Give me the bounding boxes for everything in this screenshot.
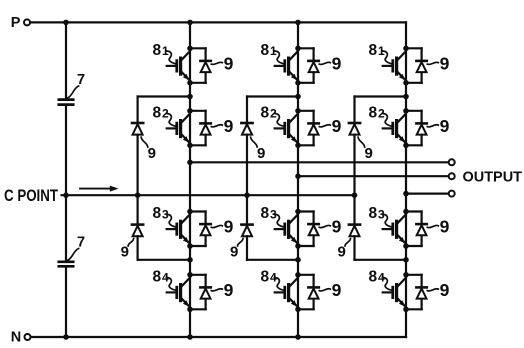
capacitor 7 upper	[59, 100, 73, 105]
wire clamp branch 3 lower segment	[353, 236, 355, 260]
label 9 freewheel (82 leg 3)	[427, 116, 449, 136]
label 82 (leg 1)	[153, 104, 176, 126]
junction leg 3 output	[403, 191, 409, 197]
wire clamp branch 1 upper segment	[137, 97, 139, 124]
svg-text:9: 9	[332, 116, 342, 136]
label N	[11, 330, 21, 346]
junction P rail / capacitor chain	[63, 20, 69, 26]
junction leg 1 output	[187, 160, 193, 166]
label 9 lower clamp (leg 1)	[121, 239, 134, 261]
junction C bus / capacitor chain	[63, 192, 69, 198]
wire clamp branch 2 upper segment	[246, 97, 248, 124]
label 9 lower clamp (leg 2)	[230, 239, 243, 261]
output terminal 2	[449, 173, 455, 179]
junction leg 2 / clamp bottom	[295, 257, 301, 263]
IGBT 83 (leg 3)	[383, 215, 406, 243]
IGBT 81 (leg 1)	[167, 52, 190, 80]
svg-text:8: 8	[369, 205, 378, 222]
svg-text:9: 9	[257, 145, 265, 162]
wire clamp branch 2 top connector	[247, 95, 298, 97]
label 9 freewheel (82 leg 1)	[211, 116, 233, 136]
label 9 freewheel (83 leg 3)	[427, 217, 449, 237]
wire clamp branch 3 upper segment	[353, 97, 355, 124]
svg-text:9: 9	[224, 54, 234, 74]
label 9 freewheel (84 leg 1)	[211, 280, 233, 300]
freewheel diode 9 (83 leg 3)	[406, 212, 427, 247]
label 9 freewheel (81 leg 3)	[427, 54, 449, 74]
clamp diode 9 lower (leg 2)	[241, 225, 252, 237]
label 9 freewheel (83 leg 1)	[211, 217, 233, 237]
label 9 freewheel (82 leg 2)	[319, 116, 341, 136]
junction N rail / leg 2	[295, 334, 301, 340]
wire leg 3 vertical	[405, 22, 407, 337]
label 81 (leg 2)	[261, 42, 284, 64]
junction collector 84 (leg 3)	[403, 272, 409, 278]
label 9 lower clamp (leg 3)	[338, 239, 351, 261]
svg-text:C POINT: C POINT	[4, 186, 58, 205]
svg-text:8: 8	[261, 205, 270, 222]
junction emitter 84 (leg 3)	[403, 307, 409, 313]
freewheel diode 9 (81 leg 3)	[406, 48, 427, 83]
label C POINT	[4, 186, 58, 205]
wire C point bus	[62, 194, 355, 196]
wire clamp branch 1 bottom connector	[138, 259, 190, 261]
junction collector 82 (leg 3)	[403, 108, 409, 114]
clamp diode 9 lower (leg 3)	[349, 225, 360, 237]
junction C bus / clamp branch 3	[352, 192, 358, 198]
junction emitter 84 (leg 2)	[295, 307, 301, 313]
junction emitter 81 (leg 3)	[403, 80, 409, 86]
IGBT 83 (leg 2)	[275, 215, 298, 243]
wire capacitor chain top	[65, 22, 67, 99]
svg-text:9: 9	[338, 244, 346, 261]
clamp diode 9 upper (leg 3)	[349, 123, 360, 135]
junction emitter 81 (leg 2)	[295, 80, 301, 86]
junction collector 82 (leg 2)	[295, 108, 301, 114]
junction N rail / leg 1	[187, 334, 193, 340]
svg-text:P: P	[11, 15, 21, 31]
IGBT 82 (leg 1)	[167, 114, 190, 142]
junction leg 1 / clamp top	[187, 94, 193, 100]
junction emitter 81 (leg 1)	[187, 80, 193, 86]
junction N rail / capacitor chain	[63, 334, 69, 340]
junction emitter 83 (leg 3)	[403, 243, 409, 249]
label 81 (leg 3)	[369, 42, 392, 64]
junction collector 84 (leg 2)	[295, 272, 301, 278]
junction collector 84 (leg 1)	[187, 272, 193, 278]
junction collector 83 (leg 3)	[403, 209, 409, 215]
svg-text:8: 8	[261, 268, 270, 285]
wire clamp branch 2 bottom connector	[247, 259, 298, 261]
IGBT 83 (leg 1)	[167, 215, 190, 243]
junction collector 81 (leg 2)	[295, 46, 301, 52]
wire clamp branch 2 middle segment	[246, 135, 248, 225]
freewheel diode 9 (81 leg 1)	[190, 48, 211, 83]
svg-text:9: 9	[440, 116, 450, 136]
label 84 (leg 2)	[261, 268, 284, 290]
IGBT 82 (leg 2)	[275, 114, 298, 142]
wire output phase 2	[298, 175, 449, 177]
wire clamp branch 3 bottom connector	[355, 259, 407, 261]
svg-text:N: N	[11, 330, 21, 346]
junction emitter 83 (leg 1)	[187, 243, 193, 249]
label 7 lower	[68, 235, 86, 261]
label 9 freewheel (81 leg 1)	[211, 54, 233, 74]
svg-text:8: 8	[153, 42, 162, 59]
freewheel diode 9 (82 leg 1)	[190, 111, 211, 146]
wire output phase 1	[190, 161, 449, 163]
wire clamp branch 2 lower segment	[246, 236, 248, 260]
label 9 upper clamp (leg 3)	[358, 137, 373, 162]
svg-text:8: 8	[261, 42, 270, 59]
svg-text:8: 8	[369, 104, 378, 121]
label 83 (leg 3)	[369, 205, 392, 227]
junction C bus / clamp branch 1	[135, 192, 141, 198]
label 82 (leg 2)	[261, 104, 284, 126]
svg-text:9: 9	[224, 217, 234, 237]
junction leg 3 / clamp bottom	[403, 257, 409, 263]
label 82 (leg 3)	[369, 104, 392, 126]
IGBT 81 (leg 2)	[275, 52, 298, 80]
junction collector 81 (leg 1)	[187, 46, 193, 52]
svg-text:8: 8	[369, 42, 378, 59]
svg-text:8: 8	[369, 268, 378, 285]
svg-text:9: 9	[332, 217, 342, 237]
IGBT 84 (leg 3)	[383, 278, 406, 306]
svg-text:9: 9	[230, 244, 238, 261]
svg-text:9: 9	[224, 116, 234, 136]
junction emitter 83 (leg 2)	[295, 243, 301, 249]
freewheel diode 9 (84 leg 2)	[298, 275, 319, 310]
label 83 (leg 1)	[153, 205, 176, 227]
wire clamp branch 1 top connector	[138, 95, 190, 97]
freewheel diode 9 (82 leg 2)	[298, 111, 319, 146]
svg-text:9: 9	[224, 280, 234, 300]
junction emitter 82 (leg 3)	[403, 143, 409, 149]
junction leg 3 / clamp top	[403, 94, 409, 100]
svg-text:8: 8	[261, 104, 270, 121]
wire capacitor chain middle	[65, 105, 67, 262]
svg-text:8: 8	[153, 268, 162, 285]
label 81 (leg 1)	[153, 42, 176, 64]
junction emitter 82 (leg 2)	[295, 143, 301, 149]
label 9 freewheel (81 leg 2)	[319, 54, 341, 74]
P terminal	[24, 19, 30, 25]
junction emitter 84 (leg 1)	[187, 307, 193, 313]
wire clamp branch 3 top connector	[355, 95, 407, 97]
svg-text:8: 8	[153, 104, 162, 121]
label OUTPUT	[463, 169, 523, 186]
junction C bus / clamp branch 2	[244, 192, 250, 198]
label 9 freewheel (84 leg 2)	[319, 280, 341, 300]
freewheel diode 9 (83 leg 1)	[190, 212, 211, 247]
wire clamp branch 1 lower segment	[137, 236, 139, 260]
wire P rail	[30, 21, 406, 23]
wire N rail	[31, 336, 406, 338]
junction emitter 82 (leg 1)	[187, 143, 193, 149]
svg-text:9: 9	[440, 280, 450, 300]
output terminal 3	[449, 191, 455, 197]
IGBT 84 (leg 1)	[167, 278, 190, 306]
svg-text:9: 9	[440, 54, 450, 74]
freewheel diode 9 (81 leg 2)	[298, 48, 319, 83]
label 7 upper	[68, 72, 86, 98]
svg-text:9: 9	[440, 217, 450, 237]
freewheel diode 9 (82 leg 3)	[406, 111, 427, 146]
wire clamp branch 3 middle segment	[353, 135, 355, 225]
wire leg 1 vertical	[189, 22, 191, 337]
svg-text:9: 9	[332, 280, 342, 300]
output terminal 1	[449, 159, 455, 165]
label 9 upper clamp (leg 2)	[251, 137, 266, 162]
junction P rail / leg 2	[295, 20, 301, 26]
junction leg 2 / clamp top	[295, 94, 301, 100]
label 9 upper clamp (leg 1)	[141, 137, 156, 162]
svg-text:OUTPUT: OUTPUT	[463, 169, 523, 186]
junction collector 83 (leg 1)	[187, 209, 193, 215]
svg-text:9: 9	[332, 54, 342, 74]
current arrow	[80, 186, 119, 192]
IGBT 82 (leg 3)	[383, 114, 406, 142]
label P	[11, 15, 21, 31]
label 84 (leg 1)	[153, 268, 176, 290]
clamp diode 9 lower (leg 1)	[132, 225, 143, 237]
freewheel diode 9 (84 leg 1)	[190, 275, 211, 310]
clamp diode 9 upper (leg 2)	[241, 123, 252, 135]
junction collector 82 (leg 1)	[187, 108, 193, 114]
IGBT 84 (leg 2)	[275, 278, 298, 306]
wire clamp branch 1 middle segment	[137, 135, 139, 225]
capacitor 7 lower	[59, 262, 73, 267]
junction leg 2 output	[295, 173, 301, 179]
svg-text:9: 9	[148, 145, 156, 162]
IGBT 81 (leg 3)	[383, 52, 406, 80]
clamp diode 9 upper (leg 1)	[132, 123, 143, 135]
junction collector 83 (leg 2)	[295, 209, 301, 215]
freewheel diode 9 (84 leg 3)	[406, 275, 427, 310]
wire leg 2 vertical	[297, 22, 299, 337]
label 9 freewheel (83 leg 2)	[319, 217, 341, 237]
label 84 (leg 3)	[369, 268, 392, 290]
wire output phase 3	[406, 193, 449, 195]
svg-text:8: 8	[153, 205, 162, 222]
junction collector 81 (leg 3)	[403, 46, 409, 52]
junction leg 1 / clamp bottom	[187, 257, 193, 263]
wire capacitor chain bottom	[65, 267, 67, 337]
junction P rail / leg 1	[187, 20, 193, 26]
freewheel diode 9 (83 leg 2)	[298, 212, 319, 247]
label 83 (leg 2)	[261, 205, 284, 227]
svg-text:9: 9	[365, 145, 373, 162]
N terminal	[25, 334, 31, 340]
svg-text:9: 9	[121, 244, 129, 261]
label 9 freewheel (84 leg 3)	[427, 280, 449, 300]
